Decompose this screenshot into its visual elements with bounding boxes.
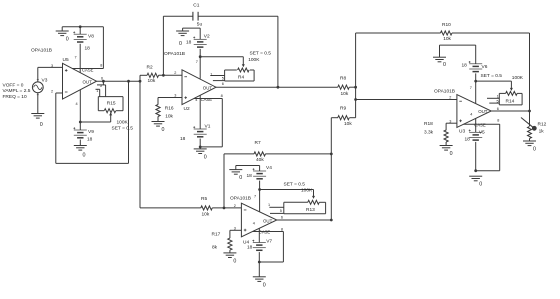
svg-text:10k: 10k	[341, 91, 349, 97]
svg-text:U4: U4	[243, 239, 249, 245]
svg-text:100K: 100K	[117, 120, 129, 126]
R4 wiper wire	[200, 57, 245, 68]
svg-text:10k: 10k	[165, 113, 173, 119]
potentiometer R14 100K	[499, 91, 522, 105]
svg-text:0: 0	[83, 153, 86, 159]
U2 CASE wire	[194, 99, 222, 147]
svg-text:SET = 0.5: SET = 0.5	[250, 51, 272, 57]
resistor R5 10k	[140, 196, 241, 218]
svg-text:7: 7	[75, 56, 77, 60]
svg-text:0: 0	[533, 147, 536, 153]
battery V2 18V	[183, 28, 210, 57]
svg-text:1k: 1k	[539, 128, 545, 134]
svg-text:R9: R9	[340, 106, 346, 112]
svg-text:3: 3	[51, 64, 53, 68]
wire U4 OUT	[277, 219, 332, 221]
resistor R8 10k	[338, 76, 350, 98]
svg-text:4: 4	[470, 113, 472, 117]
svg-text:4: 4	[253, 222, 255, 226]
svg-text:SET = 0.5: SET = 0.5	[284, 181, 306, 187]
junction V1-gnd	[199, 146, 202, 149]
label OPA101B stage1	[31, 48, 52, 54]
svg-text:U5: U5	[63, 57, 69, 63]
ground 0 below R18	[440, 146, 453, 158]
svg-text:SET = 0.5: SET = 0.5	[112, 125, 134, 131]
V3 source parameters text	[3, 82, 31, 100]
junction OUT-R12	[528, 110, 531, 113]
junction V- node	[79, 121, 82, 124]
resistor R7 40k feedback	[224, 140, 331, 208]
svg-text:6: 6	[281, 216, 283, 220]
svg-text:R4: R4	[238, 74, 244, 80]
junction R5-R7	[223, 207, 226, 210]
svg-text:V7: V7	[266, 239, 272, 245]
ground 0 for V6	[433, 45, 446, 68]
wire U3 pin2	[356, 99, 457, 101]
ground 0 below R17	[223, 253, 236, 265]
junction V7-gnd	[258, 261, 261, 264]
svg-text:7: 7	[196, 60, 198, 64]
wire U5 OUT	[97, 80, 141, 82]
ground 0 below R12	[523, 141, 536, 153]
svg-text:R2: R2	[147, 64, 153, 70]
svg-text:VOFF = 0: VOFF = 0	[3, 82, 24, 88]
wire right vertical	[529, 33, 531, 111]
wire U3 pin3-R18	[446, 123, 457, 130]
svg-text:4: 4	[76, 102, 78, 106]
svg-text:5: 5	[222, 76, 224, 80]
svg-text:R13: R13	[306, 207, 315, 213]
R13 wiper wire	[260, 190, 315, 199]
svg-text:2: 2	[174, 71, 176, 75]
U3 CASE wire	[464, 124, 500, 171]
svg-text:10k: 10k	[443, 36, 451, 42]
wire U2 pin3-R16	[158, 98, 182, 105]
svg-text:100K: 100K	[301, 187, 313, 193]
op-amp U4	[234, 203, 283, 245]
svg-text:0: 0	[263, 282, 266, 288]
stage1 top supply rail	[62, 26, 103, 28]
label OPA101B stage4	[230, 196, 251, 202]
op-amp U3	[449, 95, 499, 135]
resistor R16 10k	[156, 105, 174, 122]
potentiometer R4 100K	[225, 68, 255, 81]
wire CASE U5 to rail	[72, 27, 103, 69]
junction OUT-feedback	[127, 80, 130, 83]
svg-text:5: 5	[280, 209, 282, 213]
svg-text:R10: R10	[442, 22, 451, 28]
svg-text:2: 2	[51, 89, 53, 93]
U4 pin4 wire	[258, 228, 260, 242]
U4 CASE wire	[253, 232, 284, 263]
svg-text:R18: R18	[424, 121, 433, 127]
wire V3 to ground	[37, 93, 39, 113]
wire U4 pin3-R17	[230, 230, 242, 238]
svg-text:1: 1	[268, 203, 270, 207]
svg-text:R5: R5	[201, 196, 207, 202]
svg-text:0: 0	[40, 122, 43, 128]
svg-text:0: 0	[66, 37, 69, 43]
U2 pin1/5 stubs	[210, 72, 224, 80]
svg-text:VAMPL = 2.5: VAMPL = 2.5	[3, 88, 31, 94]
svg-text:OUT: OUT	[83, 80, 93, 85]
U3 pin4 wire	[475, 118, 477, 132]
junction rail-V8	[79, 25, 82, 28]
R13 labels	[284, 181, 314, 193]
svg-text:0: 0	[479, 182, 482, 188]
svg-text:R16: R16	[165, 105, 174, 111]
wire R10 top line	[356, 32, 530, 34]
svg-text:10k: 10k	[344, 121, 352, 127]
svg-text:V8: V8	[88, 33, 94, 39]
resistor R18 3.3k	[424, 121, 448, 145]
junction OUT-R2	[139, 80, 142, 83]
svg-text:8: 8	[497, 119, 499, 123]
svg-text:OUT: OUT	[203, 85, 213, 90]
svg-text:5u: 5u	[197, 22, 203, 28]
U4 pin7 wire	[254, 190, 260, 212]
ground 0 below V1	[194, 147, 207, 161]
svg-text:8: 8	[221, 94, 223, 98]
svg-text:V2: V2	[204, 33, 210, 39]
U2 pin7 wire	[196, 57, 200, 79]
op-amp U2	[174, 70, 224, 112]
svg-text:2: 2	[234, 204, 236, 208]
junction V+ node U2	[199, 55, 202, 58]
op-amp U5	[51, 56, 103, 107]
svg-text:R7: R7	[255, 140, 261, 146]
svg-text:0: 0	[179, 41, 182, 47]
svg-text:6: 6	[101, 76, 103, 80]
svg-text:6: 6	[497, 107, 499, 111]
svg-text:18: 18	[465, 136, 471, 142]
junction V+ node U4	[258, 188, 261, 191]
svg-text:OPA101B: OPA101B	[434, 88, 455, 94]
svg-text:OPA101B: OPA101B	[230, 196, 251, 202]
svg-text:OPA101B: OPA101B	[164, 51, 185, 57]
wire U5out down to stage4	[139, 75, 141, 208]
potentiometer R12 1k	[521, 111, 547, 141]
svg-text:6: 6	[222, 82, 224, 86]
svg-text:OUT: OUT	[478, 109, 488, 114]
junction C1-OUT	[277, 86, 280, 89]
svg-text:18: 18	[462, 62, 468, 68]
svg-text:V3: V3	[42, 78, 48, 84]
R15 wiper to V- node	[80, 112, 112, 122]
svg-text:7: 7	[254, 195, 256, 199]
wire U4out up to R9	[330, 118, 332, 220]
svg-text:1: 1	[497, 94, 499, 98]
R14 labels	[481, 73, 524, 81]
U4 pin1/5 stubs	[268, 203, 284, 213]
svg-text:3.3k: 3.3k	[424, 130, 434, 136]
svg-text:OPA101B: OPA101B	[31, 48, 52, 54]
svg-text:V1: V1	[205, 124, 211, 130]
svg-text:C1: C1	[193, 3, 199, 9]
ground 0 below R16	[152, 122, 165, 134]
svg-text:18: 18	[180, 136, 186, 142]
junction R2-C1	[162, 74, 165, 77]
battery V9 18V	[73, 122, 94, 146]
junction V5-gnd	[474, 169, 477, 172]
capacitor C1 5u feedback	[163, 3, 278, 88]
svg-text:SET = 0.5: SET = 0.5	[481, 73, 503, 79]
label OPA101B stage3	[434, 88, 455, 94]
svg-text:1: 1	[210, 72, 212, 76]
svg-text:10k: 10k	[148, 78, 156, 84]
junction OUT-R15net	[102, 80, 105, 83]
svg-text:18: 18	[186, 40, 192, 46]
R15 labels	[112, 120, 134, 132]
svg-text:3: 3	[174, 93, 176, 97]
junction R7-out vertical	[330, 153, 333, 156]
junction R8-sum	[354, 86, 357, 89]
wire summing vertical	[355, 33, 357, 118]
U5 pin4 wire	[79, 90, 81, 122]
svg-text:V5: V5	[479, 129, 485, 135]
junction sum-pin2	[354, 98, 357, 101]
svg-text:10k: 10k	[202, 211, 210, 217]
svg-text:7: 7	[470, 86, 472, 90]
ground 0 for V2	[176, 28, 189, 47]
svg-text:OUT: OUT	[263, 218, 273, 223]
svg-text:0: 0	[204, 154, 207, 160]
ground 0 top-left	[56, 27, 69, 43]
battery V7 18V	[247, 239, 272, 263]
battery V8 18V	[73, 27, 94, 73]
label OPA101B stage2	[164, 51, 185, 57]
U3 pin1/5 stubs	[487, 94, 499, 103]
wire U3 OUT	[491, 110, 529, 112]
svg-text:100K: 100K	[248, 57, 260, 63]
R14 wiper wire	[476, 81, 513, 91]
svg-text:40k: 40k	[256, 157, 264, 163]
svg-text:18: 18	[85, 45, 91, 51]
wire V3 to U5 pin3	[38, 67, 63, 82]
svg-text:FREQ = 10: FREQ = 10	[3, 94, 27, 100]
svg-text:V4: V4	[266, 165, 272, 171]
svg-text:2: 2	[449, 95, 451, 99]
U2 pin4 wire	[199, 95, 201, 129]
resistor R9 10k	[331, 106, 355, 127]
battery V6 18V	[440, 45, 488, 81]
battery V5 18V	[465, 129, 485, 170]
resistor R17 8k	[212, 232, 232, 253]
svg-text:18: 18	[247, 173, 253, 179]
U5 feedback loop wire	[56, 81, 129, 163]
svg-text:0: 0	[239, 175, 242, 181]
svg-text:0: 0	[450, 151, 453, 157]
ground 0 below V9	[74, 146, 87, 159]
potentiometer R13 100K	[284, 200, 326, 213]
U3 pin7 wire	[470, 81, 476, 103]
junction V+ node U3	[474, 80, 477, 83]
junction U4out-vertical	[330, 219, 333, 222]
svg-text:R12: R12	[538, 122, 547, 128]
svg-text:V9: V9	[88, 129, 94, 135]
battery V1 18V	[180, 124, 211, 147]
svg-text:U2: U2	[184, 106, 190, 112]
svg-text:CASE: CASE	[201, 97, 213, 102]
svg-text:8: 8	[100, 63, 102, 67]
svg-text:18: 18	[247, 245, 253, 251]
svg-text:R8: R8	[340, 76, 346, 82]
svg-text:R17: R17	[212, 232, 221, 238]
svg-text:5: 5	[497, 100, 499, 104]
resistor R2 10k	[140, 64, 182, 84]
svg-text:100K: 100K	[512, 75, 524, 81]
potentiometer R15 100K	[96, 81, 124, 113]
ground 0 below V7	[253, 262, 266, 288]
R4 labels	[248, 51, 271, 63]
voltage source V3	[32, 78, 47, 95]
svg-text:0: 0	[233, 258, 236, 264]
battery V4 18V	[236, 165, 272, 189]
wire U2 OUT bus	[216, 86, 356, 88]
svg-text:0: 0	[162, 127, 165, 133]
svg-text:U3: U3	[459, 129, 465, 135]
svg-text:0: 0	[443, 62, 446, 68]
resistor R10 10k	[440, 22, 452, 42]
ground 0 for V4	[229, 166, 242, 182]
ground 0 below V5	[469, 176, 482, 188]
svg-text:R14: R14	[506, 99, 515, 105]
svg-text:R15: R15	[107, 101, 116, 107]
svg-text:8k: 8k	[212, 244, 218, 250]
svg-text:V6: V6	[482, 64, 488, 70]
ground 0 below V3	[31, 114, 44, 129]
svg-text:18: 18	[87, 137, 93, 143]
